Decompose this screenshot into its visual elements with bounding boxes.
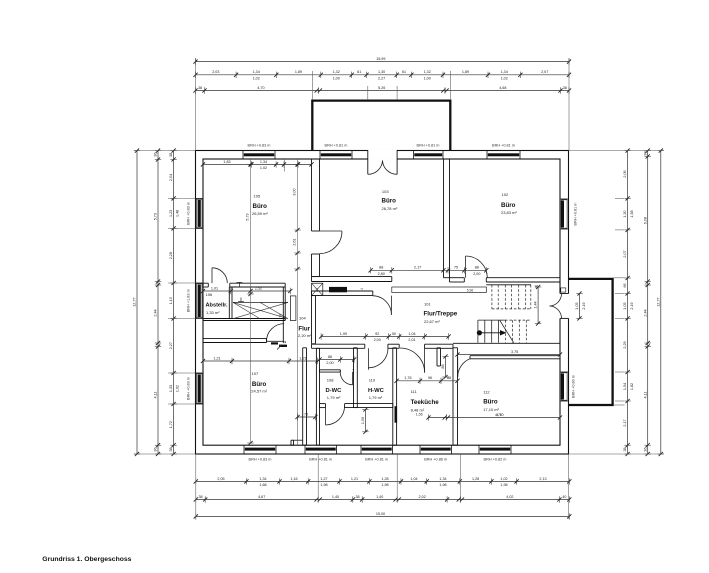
svg-text:1,56: 1,56 xyxy=(416,412,423,416)
dimension chain line xyxy=(203,290,290,292)
svg-text:38: 38 xyxy=(279,314,283,318)
svg-text:BRH +0.82 m: BRH +0.82 m xyxy=(484,458,507,462)
dimension chain line xyxy=(321,336,449,338)
svg-text:2,07: 2,07 xyxy=(541,70,548,74)
svg-text:102: 102 xyxy=(502,192,509,197)
svg-text:36: 36 xyxy=(643,447,647,451)
svg-text:38: 38 xyxy=(355,495,359,499)
svg-text:1,30: 1,30 xyxy=(623,210,627,217)
svg-text:1,00: 1,00 xyxy=(333,76,340,80)
small partition near window xyxy=(290,440,292,445)
svg-text:1,10: 1,10 xyxy=(169,297,173,304)
balcony double door xyxy=(550,294,562,306)
svg-text:26,78 m²: 26,78 m² xyxy=(382,206,398,211)
dimension chain line (vertical) xyxy=(136,151,138,454)
window xyxy=(243,445,245,454)
door hall/room103 area xyxy=(390,296,392,315)
dimension chain line (vertical) xyxy=(647,151,649,454)
exterior wall outer line xyxy=(196,151,569,455)
svg-text:BRH +0.81 m: BRH +0.81 m xyxy=(574,203,578,226)
svg-text:1,82: 1,82 xyxy=(630,383,634,390)
svg-text:2,19: 2,19 xyxy=(582,302,586,309)
corridor south wall W6 xyxy=(312,343,365,345)
svg-text:2,44: 2,44 xyxy=(154,309,158,316)
abstellraum north wall xyxy=(203,282,208,284)
svg-text:1,34: 1,34 xyxy=(259,477,266,481)
dimension chain line (vertical) xyxy=(157,151,159,454)
abstellraum/shaft south wall xyxy=(203,318,285,320)
svg-text:BRH +0.86 m: BRH +0.86 m xyxy=(424,458,447,462)
svg-text:40: 40 xyxy=(562,495,566,499)
dimension chain line (vertical) xyxy=(537,287,539,324)
dimension chain line (vertical) xyxy=(365,410,367,432)
svg-text:BRH +0.83 m: BRH +0.83 m xyxy=(187,202,191,225)
svg-text:BRH +1.83 m: BRH +1.83 m xyxy=(187,289,191,312)
svg-text:1,34: 1,34 xyxy=(260,160,267,164)
svg-text:1,72: 1,72 xyxy=(169,421,173,428)
svg-text:3,00: 3,00 xyxy=(293,188,297,195)
svg-text:1,98: 1,98 xyxy=(439,483,446,487)
window xyxy=(196,197,204,199)
svg-text:15,99: 15,99 xyxy=(376,57,385,61)
svg-text:1,00: 1,00 xyxy=(424,76,431,80)
wall between D-WC and H-WC xyxy=(353,348,355,408)
svg-text:88: 88 xyxy=(441,364,445,368)
shaft box xyxy=(312,283,323,295)
svg-text:1,16: 1,16 xyxy=(290,477,297,481)
svg-text:D-WC: D-WC xyxy=(326,388,343,394)
svg-text:84: 84 xyxy=(315,288,319,292)
svg-text:Büro: Büro xyxy=(382,198,397,205)
svg-text:61: 61 xyxy=(357,70,361,74)
D-WC door xyxy=(352,372,354,385)
window xyxy=(196,282,204,284)
svg-text:1,83: 1,83 xyxy=(223,160,230,164)
porch wall xyxy=(312,101,450,151)
svg-text:1,30: 1,30 xyxy=(378,70,385,74)
window xyxy=(360,445,362,454)
svg-text:108: 108 xyxy=(327,378,334,383)
H-WC door xyxy=(368,348,370,370)
niche marker before balcony door xyxy=(561,288,566,292)
svg-text:1,32: 1,32 xyxy=(333,70,340,74)
stair cut diagonal xyxy=(500,320,514,343)
svg-text:2,00: 2,00 xyxy=(374,338,381,342)
svg-text:88: 88 xyxy=(475,266,479,270)
door room 102 xyxy=(465,256,467,278)
room 105 vertical chain labels xyxy=(248,162,252,166)
svg-text:1,98: 1,98 xyxy=(500,483,507,487)
svg-text:38: 38 xyxy=(623,447,627,451)
svg-text:1,79 m²: 1,79 m² xyxy=(369,395,383,400)
svg-text:2,29: 2,29 xyxy=(623,341,627,348)
shaft crossed box xyxy=(233,302,288,318)
svg-text:75: 75 xyxy=(304,412,308,416)
svg-text:4,68: 4,68 xyxy=(499,86,506,90)
duct at flur 104 xyxy=(290,296,296,321)
T marker xyxy=(238,282,240,287)
svg-text:BRH +0.83 m: BRH +0.83 m xyxy=(187,377,191,400)
svg-text:22,67 m²: 22,67 m² xyxy=(424,319,440,324)
dimension chain line xyxy=(196,499,570,501)
svg-text:1,33 m²: 1,33 m² xyxy=(206,310,220,315)
dimension chain line xyxy=(196,480,570,482)
vertical chain line x=250.5 xyxy=(250,159,252,443)
svg-text:1,98: 1,98 xyxy=(381,483,388,487)
svg-text:Abstellr.: Abstellr. xyxy=(206,303,229,309)
svg-text:105: 105 xyxy=(254,194,261,199)
svg-text:96: 96 xyxy=(428,376,432,380)
pier extension stub room 105 xyxy=(283,159,285,172)
svg-text:38: 38 xyxy=(198,495,202,499)
svg-text:23,83 m²: 23,83 m² xyxy=(501,210,517,215)
D-WC niche south wall xyxy=(320,369,341,371)
teekueche stub wall xyxy=(436,348,438,366)
room 107 north wall xyxy=(203,337,267,339)
svg-text:38: 38 xyxy=(643,151,647,155)
left extension lines xyxy=(134,150,196,152)
svg-text:26,59 m²: 26,59 m² xyxy=(252,211,268,216)
window xyxy=(560,198,569,200)
dimension chain line xyxy=(196,74,570,76)
svg-text:1,54: 1,54 xyxy=(623,383,627,390)
svg-text:12,77: 12,77 xyxy=(656,297,660,306)
wall between rooms 103 and 102 xyxy=(443,159,445,278)
svg-text:3,75: 3,75 xyxy=(511,350,518,354)
svg-text:Büro: Büro xyxy=(501,202,516,209)
wall between teekueche and room 112 xyxy=(452,348,454,445)
svg-text:BRH +0.81 m: BRH +0.81 m xyxy=(492,144,515,148)
svg-text:4,02: 4,02 xyxy=(506,495,513,499)
stair top edge under wall xyxy=(486,284,531,286)
svg-text:107: 107 xyxy=(252,371,259,376)
svg-text:1,32: 1,32 xyxy=(424,70,431,74)
svg-text:1,28: 1,28 xyxy=(381,477,388,481)
svg-text:2,00: 2,00 xyxy=(326,361,333,365)
stair upper flight (dashed treads) xyxy=(491,285,493,309)
dimension chain line xyxy=(397,380,458,382)
door flur104 west xyxy=(267,340,285,342)
svg-text:38: 38 xyxy=(563,86,567,90)
svg-text:1,62: 1,62 xyxy=(176,385,180,392)
svg-text:1,34: 1,34 xyxy=(439,477,446,481)
entrance opening xyxy=(368,150,397,160)
svg-text:112: 112 xyxy=(483,390,490,395)
svg-text:2,80: 2,80 xyxy=(378,272,385,276)
svg-text:1,06: 1,06 xyxy=(361,417,365,424)
svg-text:1,99: 1,99 xyxy=(340,332,347,336)
svg-text:75: 75 xyxy=(454,266,458,270)
svg-text:1,02: 1,02 xyxy=(500,477,507,481)
svg-text:12,77: 12,77 xyxy=(133,297,137,306)
svg-text:2,00: 2,00 xyxy=(473,272,480,276)
svg-text:2,05: 2,05 xyxy=(217,477,224,481)
dimension chain line xyxy=(429,417,561,419)
svg-text:1,23: 1,23 xyxy=(169,210,173,217)
svg-text:1,44: 1,44 xyxy=(534,301,538,308)
teekueche door xyxy=(424,348,426,373)
black door leaf xyxy=(395,406,398,423)
svg-text:BRH +0.81 m: BRH +0.81 m xyxy=(417,144,440,148)
svg-text:1,05: 1,05 xyxy=(623,302,627,309)
svg-text:1,21: 1,21 xyxy=(351,477,358,481)
svg-text:1,01: 1,01 xyxy=(211,286,218,290)
dimension chain line (vertical) xyxy=(173,151,175,454)
long thin bar (5.96) xyxy=(392,287,487,293)
svg-text:2,27: 2,27 xyxy=(378,76,385,80)
svg-text:1,40: 1,40 xyxy=(332,495,339,499)
svg-text:2,20 m²: 2,20 m² xyxy=(298,333,312,338)
svg-text:Büro: Büro xyxy=(483,399,498,406)
hall north wall xyxy=(312,290,373,292)
dimension chain line xyxy=(196,90,570,92)
svg-text:2,17: 2,17 xyxy=(414,266,421,270)
svg-text:2,02: 2,02 xyxy=(419,495,426,499)
svg-text:1,79 m²: 1,79 m² xyxy=(327,395,341,400)
svg-text:1,33: 1,33 xyxy=(169,385,173,392)
D-WC niche west wall xyxy=(315,348,317,445)
svg-text:2,03: 2,03 xyxy=(212,70,219,74)
svg-text:2,01: 2,01 xyxy=(408,338,415,342)
svg-text:88: 88 xyxy=(328,355,332,359)
dimension chain line (vertical) xyxy=(627,151,629,454)
svg-text:104: 104 xyxy=(299,316,306,321)
svg-text:2,13: 2,13 xyxy=(539,477,546,481)
svg-text:Büro: Büro xyxy=(253,203,268,210)
svg-text:1,76: 1,76 xyxy=(404,376,411,380)
svg-text:4,67: 4,67 xyxy=(258,495,265,499)
svg-text:36: 36 xyxy=(154,152,158,156)
svg-text:BRH +0.81 m: BRH +0.81 m xyxy=(309,458,332,462)
dimension chain line xyxy=(298,416,316,418)
svg-text:BRH +0.81 m: BRH +0.81 m xyxy=(365,458,388,462)
svg-text:4,70: 4,70 xyxy=(495,413,502,417)
svg-text:2,61: 2,61 xyxy=(293,238,297,245)
svg-text:38: 38 xyxy=(169,153,173,157)
entrance double door xyxy=(368,161,383,175)
window xyxy=(304,445,306,454)
svg-text:101: 101 xyxy=(424,302,431,307)
svg-text:4,11: 4,11 xyxy=(643,392,647,399)
flur south door threshold marks xyxy=(271,342,278,344)
svg-text:110: 110 xyxy=(369,378,376,383)
svg-text:4,70: 4,70 xyxy=(257,86,264,90)
svg-text:111: 111 xyxy=(411,389,418,394)
dimension chain line xyxy=(203,360,318,362)
dimension chain line xyxy=(458,354,561,356)
svg-text:6,08: 6,08 xyxy=(643,217,647,224)
flur 104 east wall xyxy=(311,296,313,344)
svg-text:50: 50 xyxy=(392,332,396,336)
dimension chain line xyxy=(371,269,487,271)
svg-text:1,27: 1,27 xyxy=(320,477,327,481)
svg-text:BRH +0.81 m: BRH +0.81 m xyxy=(325,144,348,148)
svg-text:1,89: 1,89 xyxy=(462,70,469,74)
balcony wall xyxy=(569,279,613,405)
svg-text:5,73: 5,73 xyxy=(246,213,250,220)
svg-text:Flur: Flur xyxy=(298,326,310,333)
svg-text:Büro: Büro xyxy=(252,381,267,388)
flur 104 west wall xyxy=(282,287,284,343)
stair lower flight xyxy=(477,320,479,343)
window xyxy=(478,445,480,454)
svg-text:61: 61 xyxy=(402,70,406,74)
window xyxy=(319,151,321,160)
dimension chain line xyxy=(196,61,570,63)
svg-text:1,05: 1,05 xyxy=(575,302,579,309)
svg-text:Teeküche: Teeküche xyxy=(411,399,440,406)
window xyxy=(242,151,244,160)
svg-text:1,02: 1,02 xyxy=(501,76,508,80)
svg-text:38: 38 xyxy=(169,447,173,451)
dimension chain line (vertical) xyxy=(579,294,581,319)
svg-text:2,44: 2,44 xyxy=(643,309,647,316)
svg-text:H-WC: H-WC xyxy=(368,388,385,394)
svg-text:2,19: 2,19 xyxy=(630,302,634,309)
svg-text:36: 36 xyxy=(154,447,158,451)
svg-text:15,00: 15,00 xyxy=(376,512,385,516)
svg-text:103: 103 xyxy=(382,189,389,194)
svg-text:2,04: 2,04 xyxy=(169,174,173,181)
wall between H-WC and teekueche xyxy=(392,348,394,445)
svg-text:1,58: 1,58 xyxy=(630,210,634,217)
WC lobby door xyxy=(325,408,327,425)
stair walk line with start circle and arrow xyxy=(477,330,482,335)
room 112 north wall xyxy=(470,355,560,357)
window xyxy=(196,372,204,374)
svg-text:1,21: 1,21 xyxy=(299,356,306,360)
top extension lines xyxy=(195,58,197,151)
svg-text:1,34: 1,34 xyxy=(501,70,508,74)
dimension chain line xyxy=(196,515,570,517)
svg-text:106: 106 xyxy=(206,292,213,297)
right extension lines xyxy=(569,150,664,152)
svg-text:24,57 m²: 24,57 m² xyxy=(251,388,267,393)
window xyxy=(419,445,421,454)
svg-text:2,17: 2,17 xyxy=(623,419,627,426)
svg-text:1,89: 1,89 xyxy=(295,70,302,74)
svg-text:14: 14 xyxy=(360,288,364,292)
dimension chain line (vertical) xyxy=(445,357,447,378)
svg-text:BRH +0.83 m: BRH +0.83 m xyxy=(249,458,272,462)
abstellraum east wall xyxy=(228,287,230,319)
svg-text:5,26: 5,26 xyxy=(378,86,385,90)
window xyxy=(486,151,488,160)
svg-text:Grundriss 1. Obergeschoss: Grundriss 1. Obergeschoss xyxy=(42,556,131,563)
svg-text:1,68: 1,68 xyxy=(259,483,266,487)
abstellraum door xyxy=(211,268,213,283)
svg-text:92: 92 xyxy=(375,332,379,336)
svg-text:4,11: 4,11 xyxy=(154,392,158,399)
dimension chain line xyxy=(320,359,355,361)
svg-text:BRH +0.80 m: BRH +0.80 m xyxy=(572,375,576,398)
svg-text:1,04: 1,04 xyxy=(408,332,415,336)
svg-text:1,48: 1,48 xyxy=(176,210,180,217)
svg-text:2,52: 2,52 xyxy=(255,286,262,290)
window xyxy=(413,151,415,160)
svg-text:5.96: 5.96 xyxy=(467,288,474,292)
window xyxy=(560,371,569,373)
balcony door opening xyxy=(559,294,569,319)
door room103 from room105 wall xyxy=(320,230,343,232)
svg-text:BRH +0.83 m: BRH +0.83 m xyxy=(248,144,271,148)
wall south of room 103 xyxy=(312,276,392,278)
svg-text:17,10 m²: 17,10 m² xyxy=(483,407,499,412)
vertical chain line x=297.5 xyxy=(297,159,299,445)
WC south wall xyxy=(320,403,326,405)
exterior wall inner line xyxy=(203,159,560,445)
dimension chain line xyxy=(203,163,312,165)
svg-text:2,06: 2,06 xyxy=(623,170,627,177)
room 112 door xyxy=(457,357,459,378)
svg-text:2,28: 2,28 xyxy=(169,252,173,259)
stairwell south boundary xyxy=(453,342,560,344)
wall black infill segment xyxy=(329,287,347,292)
svg-text:1,02: 1,02 xyxy=(260,166,267,170)
svg-text:38: 38 xyxy=(198,86,202,90)
wall west of D-WC xyxy=(302,348,304,445)
svg-text:2,07: 2,07 xyxy=(623,250,627,257)
wall between rooms 105 and 103 xyxy=(311,159,313,231)
wall south of room 102 xyxy=(450,277,465,279)
svg-text:1,04: 1,04 xyxy=(410,477,417,481)
svg-text:1,02: 1,02 xyxy=(253,76,260,80)
svg-text:5,73: 5,73 xyxy=(154,213,158,220)
svg-text:88: 88 xyxy=(379,266,383,270)
bottom extension lines xyxy=(195,454,197,519)
svg-text:Flur/Treppe: Flur/Treppe xyxy=(424,311,458,318)
svg-text:1,98: 1,98 xyxy=(320,483,327,487)
svg-text:1,28: 1,28 xyxy=(472,477,479,481)
svg-text:1,21: 1,21 xyxy=(213,356,220,360)
svg-text:1,34: 1,34 xyxy=(253,70,260,74)
dimension chain line (vertical) xyxy=(660,151,662,454)
svg-text:2,27: 2,27 xyxy=(169,342,173,349)
svg-text:1,40: 1,40 xyxy=(376,495,383,499)
svg-text:66: 66 xyxy=(623,283,627,287)
